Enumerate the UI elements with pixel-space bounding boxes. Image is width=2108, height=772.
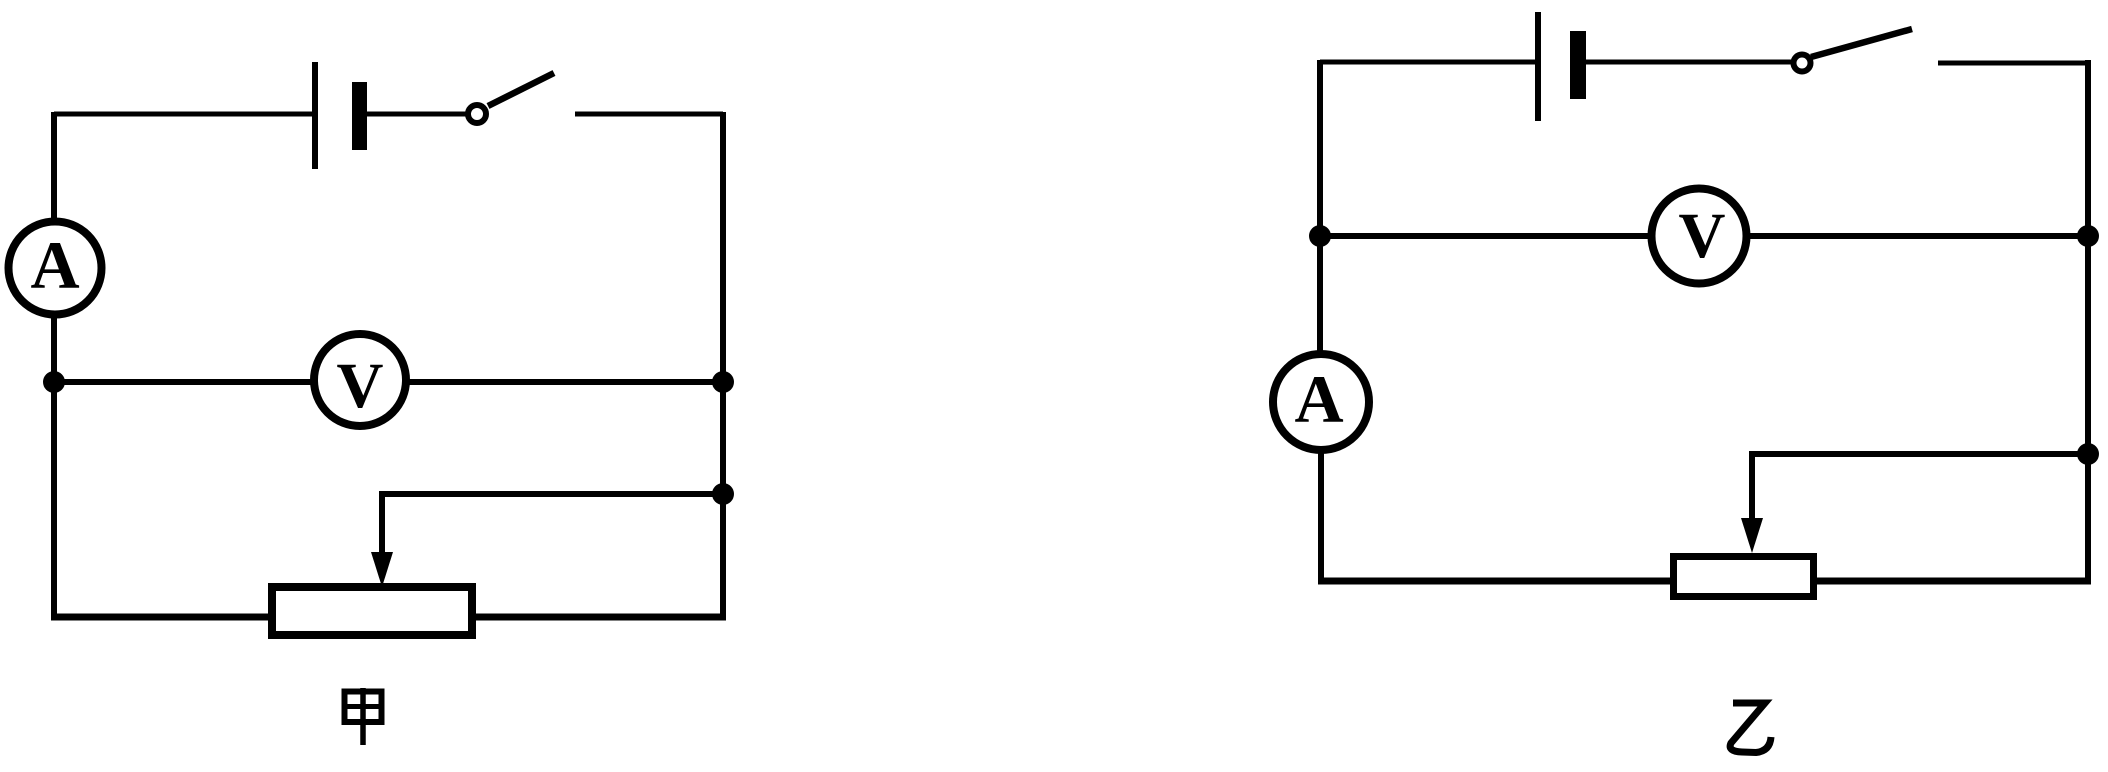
wire: switch gap right stub to top-right corner [1938,61,2088,66]
battery: long thin plate (positive) [312,62,318,169]
svg-text:V: V [337,350,384,422]
node: right junction of voltmeter branch [712,371,734,393]
node: junction of slider lead on right vertical [712,483,734,505]
node: right junction of voltmeter line [2077,225,2099,247]
wire: left vertical top (corner to ammeter) [51,112,57,219]
rheostat R1 body (left circuit) [272,587,472,635]
wire: left vertical from ammeter down to bottom corner [1318,450,1324,581]
battery: short thick plate (negative) [1570,31,1586,99]
wire: battery to switch pivot [1586,60,1792,65]
wire: top-left horizontal from left corner to battery [54,112,315,117]
wire: bottom-left segment to rheostat [1318,578,1673,585]
label 甲 (left circuit caption) [345,688,382,745]
svg-text:A: A [1294,361,1343,437]
rheostat slider arrow head [371,552,393,587]
wire: voltmeter branch right segment [406,379,723,385]
voltmeter V (right circuit) [1652,189,1747,284]
wire: slider vertical lead [379,491,385,556]
wire: right vertical of right circuit [2085,60,2091,581]
label 乙 (right circuit caption) [1730,703,1771,753]
node: left junction of voltmeter line [1309,225,1331,247]
node: junction of slider lead on right vertical [2077,443,2099,465]
wire: rheostat slider horizontal lead [1752,451,2088,457]
ammeter A (right circuit) [1273,354,1369,450]
switch S1 pivot circle [468,105,486,123]
switch S2 lever (open) [1811,29,1912,57]
wire: voltmeter line left segment [1320,233,1653,239]
wire: left vertical top (corner to junction to ammeter) [1317,60,1323,352]
switch S1 lever (open) [488,73,554,106]
wire: top-left horizontal from left corner to battery [1320,60,1538,65]
voltmeter V (left circuit) [314,334,406,426]
node: left junction of voltmeter branch [43,371,65,393]
battery: long thin plate (positive) [1535,12,1541,121]
wire: battery to switch pivot [367,112,466,117]
rheostat slider arrow head [1741,518,1763,553]
switch S2 pivot circle [1794,55,1811,72]
wire: rheostat to bottom-right corner [472,614,726,621]
wire: switch gap right stub to top-right corner [575,112,723,117]
svg-text:A: A [30,227,79,303]
rheostat R2 body (right circuit) [1674,557,1814,597]
wire: rheostat slider horizontal lead [382,491,723,497]
wire: left vertical from ammeter down to bottom corner [51,317,57,617]
wire: bottom-left segment to rheostat [51,614,268,621]
wire: voltmeter line right segment [1746,233,2088,239]
battery: short thick plate (negative) [352,82,367,150]
wire: slider vertical lead [1749,451,1755,522]
wire: right vertical of left circuit [720,112,726,617]
wire: voltmeter branch left segment [54,379,314,385]
svg-text:V: V [1679,200,1726,272]
ammeter A (left circuit) [9,222,102,315]
wire: rheostat to bottom-right corner [1814,578,2091,585]
